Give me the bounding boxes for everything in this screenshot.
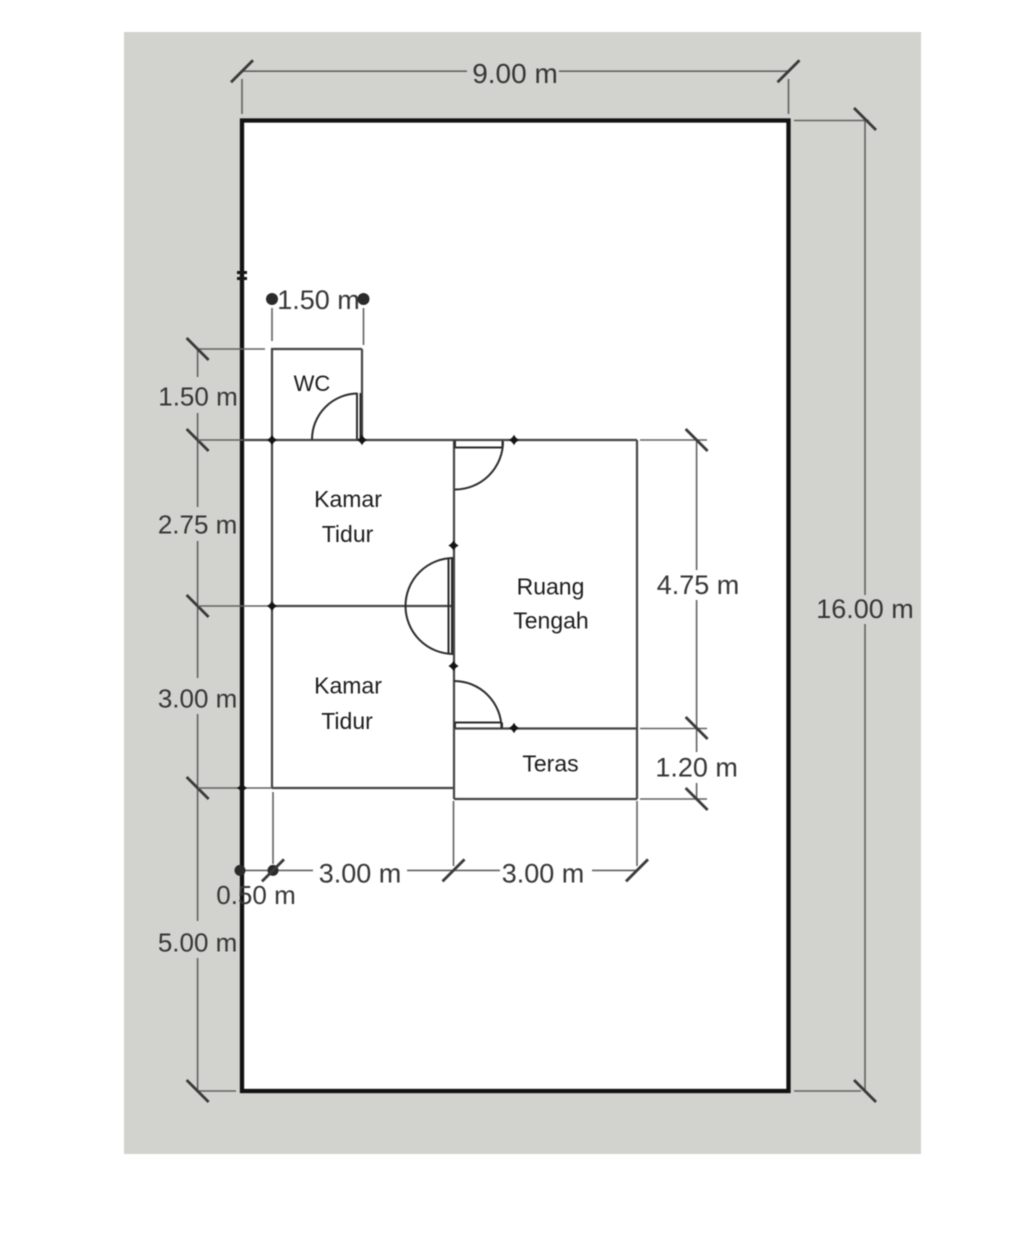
extension y799 right	[640, 798, 707, 800]
svg-text:3.00 m: 3.00 m	[319, 859, 402, 889]
extension x273 down	[272, 792, 274, 864]
svg-text:Tidur: Tidur	[322, 521, 374, 547]
svg-text:Teras: Teras	[522, 751, 578, 777]
top 1.50 m dimension with dots	[266, 293, 278, 305]
tick 4.75 bottom	[686, 717, 708, 739]
left dim tick y788	[187, 777, 209, 799]
right dim extension bottom	[794, 1090, 861, 1092]
svg-text:1.50 m: 1.50 m	[277, 285, 360, 315]
extension x637 down	[636, 801, 638, 866]
teras door leaf	[455, 723, 502, 729]
double tick mark on left plot border	[237, 271, 247, 280]
top wall y440	[243, 439, 637, 441]
tick 1.20 bottom	[686, 788, 708, 810]
bedroom bottom wall y788	[272, 787, 454, 789]
extension below right dot	[363, 308, 365, 345]
top dimension line 9.00 m	[242, 70, 789, 72]
marker x453.5 y545.5	[448, 540, 458, 550]
right dim tick bottom	[854, 1080, 876, 1102]
right dim extension top	[794, 120, 869, 122]
marker x514 y440	[509, 435, 519, 445]
marker x362 y440	[357, 435, 367, 445]
svg-text:3.00 m: 3.00 m	[502, 859, 585, 889]
left dim tick y606	[187, 595, 209, 617]
top dim tick right	[778, 60, 800, 82]
marker x272 y606	[267, 601, 277, 611]
bottom tick x637	[626, 859, 648, 881]
right dimension line 16.00 m	[864, 119, 866, 1091]
right dim tick top	[854, 108, 876, 130]
teras bottom wall y799	[454, 798, 637, 800]
svg-text:Ruang: Ruang	[517, 574, 585, 600]
svg-text:WC: WC	[294, 371, 331, 396]
ruang tengah door leaf	[455, 441, 503, 448]
top dim extension left	[241, 79, 243, 114]
svg-text:0.50 m: 0.50 m	[216, 880, 296, 910]
svg-text:5.00 m: 5.00 m	[158, 928, 238, 958]
WC door arc	[312, 394, 358, 440]
plot boundary 9x16 m	[242, 121, 789, 1092]
extension y728 right	[640, 728, 707, 730]
ruang tengah right wall x637	[636, 440, 638, 799]
extension y788 from left dim	[198, 787, 272, 789]
svg-text:16.00 m: 16.00 m	[816, 594, 914, 624]
marker x453.5 y666	[448, 661, 458, 671]
svg-text:1.20 m: 1.20 m	[655, 753, 738, 783]
teras door arc	[454, 681, 502, 729]
svg-text:4.75 m: 4.75 m	[657, 570, 740, 600]
top dim tick left	[231, 60, 253, 82]
left dimension line column	[197, 349, 199, 1091]
WC room	[271, 349, 362, 440]
svg-text:Tidur: Tidur	[321, 708, 373, 734]
interior right dimension 4.75 / 1.20	[696, 440, 698, 799]
left dim tick y349	[187, 338, 209, 360]
house left wall	[271, 348, 273, 788]
extension below left dot	[271, 308, 273, 341]
svg-text:9.00 m: 9.00 m	[472, 58, 558, 89]
bedroom divider wall y606	[272, 605, 454, 607]
junction star markers	[237, 435, 519, 793]
marker x242 y788	[237, 783, 247, 793]
svg-text:3.00 m: 3.00 m	[158, 684, 238, 714]
bottom dot left	[235, 865, 246, 876]
middle wall x454	[453, 440, 455, 799]
bedroom double door leaf	[449, 558, 453, 654]
left dim extension y1091	[199, 1090, 236, 1092]
bottom dot right with slash	[268, 865, 279, 876]
teras top wall y728.5	[454, 727, 637, 729]
svg-text:2.75 m: 2.75 m	[158, 510, 238, 540]
marker x514 y728	[509, 723, 519, 733]
bedroom door arc	[406, 558, 454, 654]
marker x272 y440	[267, 435, 277, 445]
extension y440 right	[640, 439, 707, 441]
tick 4.75 top	[686, 429, 708, 451]
ruang tengah door arc	[455, 442, 503, 490]
WC door leaf	[357, 393, 361, 439]
extension y440 from left dim	[198, 439, 272, 441]
svg-text:Kamar: Kamar	[314, 673, 382, 699]
top dim extension right	[788, 79, 790, 114]
left dim tick y440	[187, 429, 209, 451]
svg-text:Kamar: Kamar	[314, 486, 382, 512]
svg-text:Tengah: Tengah	[513, 608, 588, 634]
left dim tick y1091	[187, 1080, 209, 1102]
left dim extension y349	[198, 348, 265, 350]
bottom dimension line	[240, 869, 637, 871]
extension y606 from left dim	[198, 605, 272, 607]
gray backdrop	[124, 32, 921, 1154]
extension x453.5 down	[453, 801, 455, 866]
bottom tick x453.5	[443, 859, 465, 881]
svg-text:1.50 m: 1.50 m	[158, 382, 238, 412]
